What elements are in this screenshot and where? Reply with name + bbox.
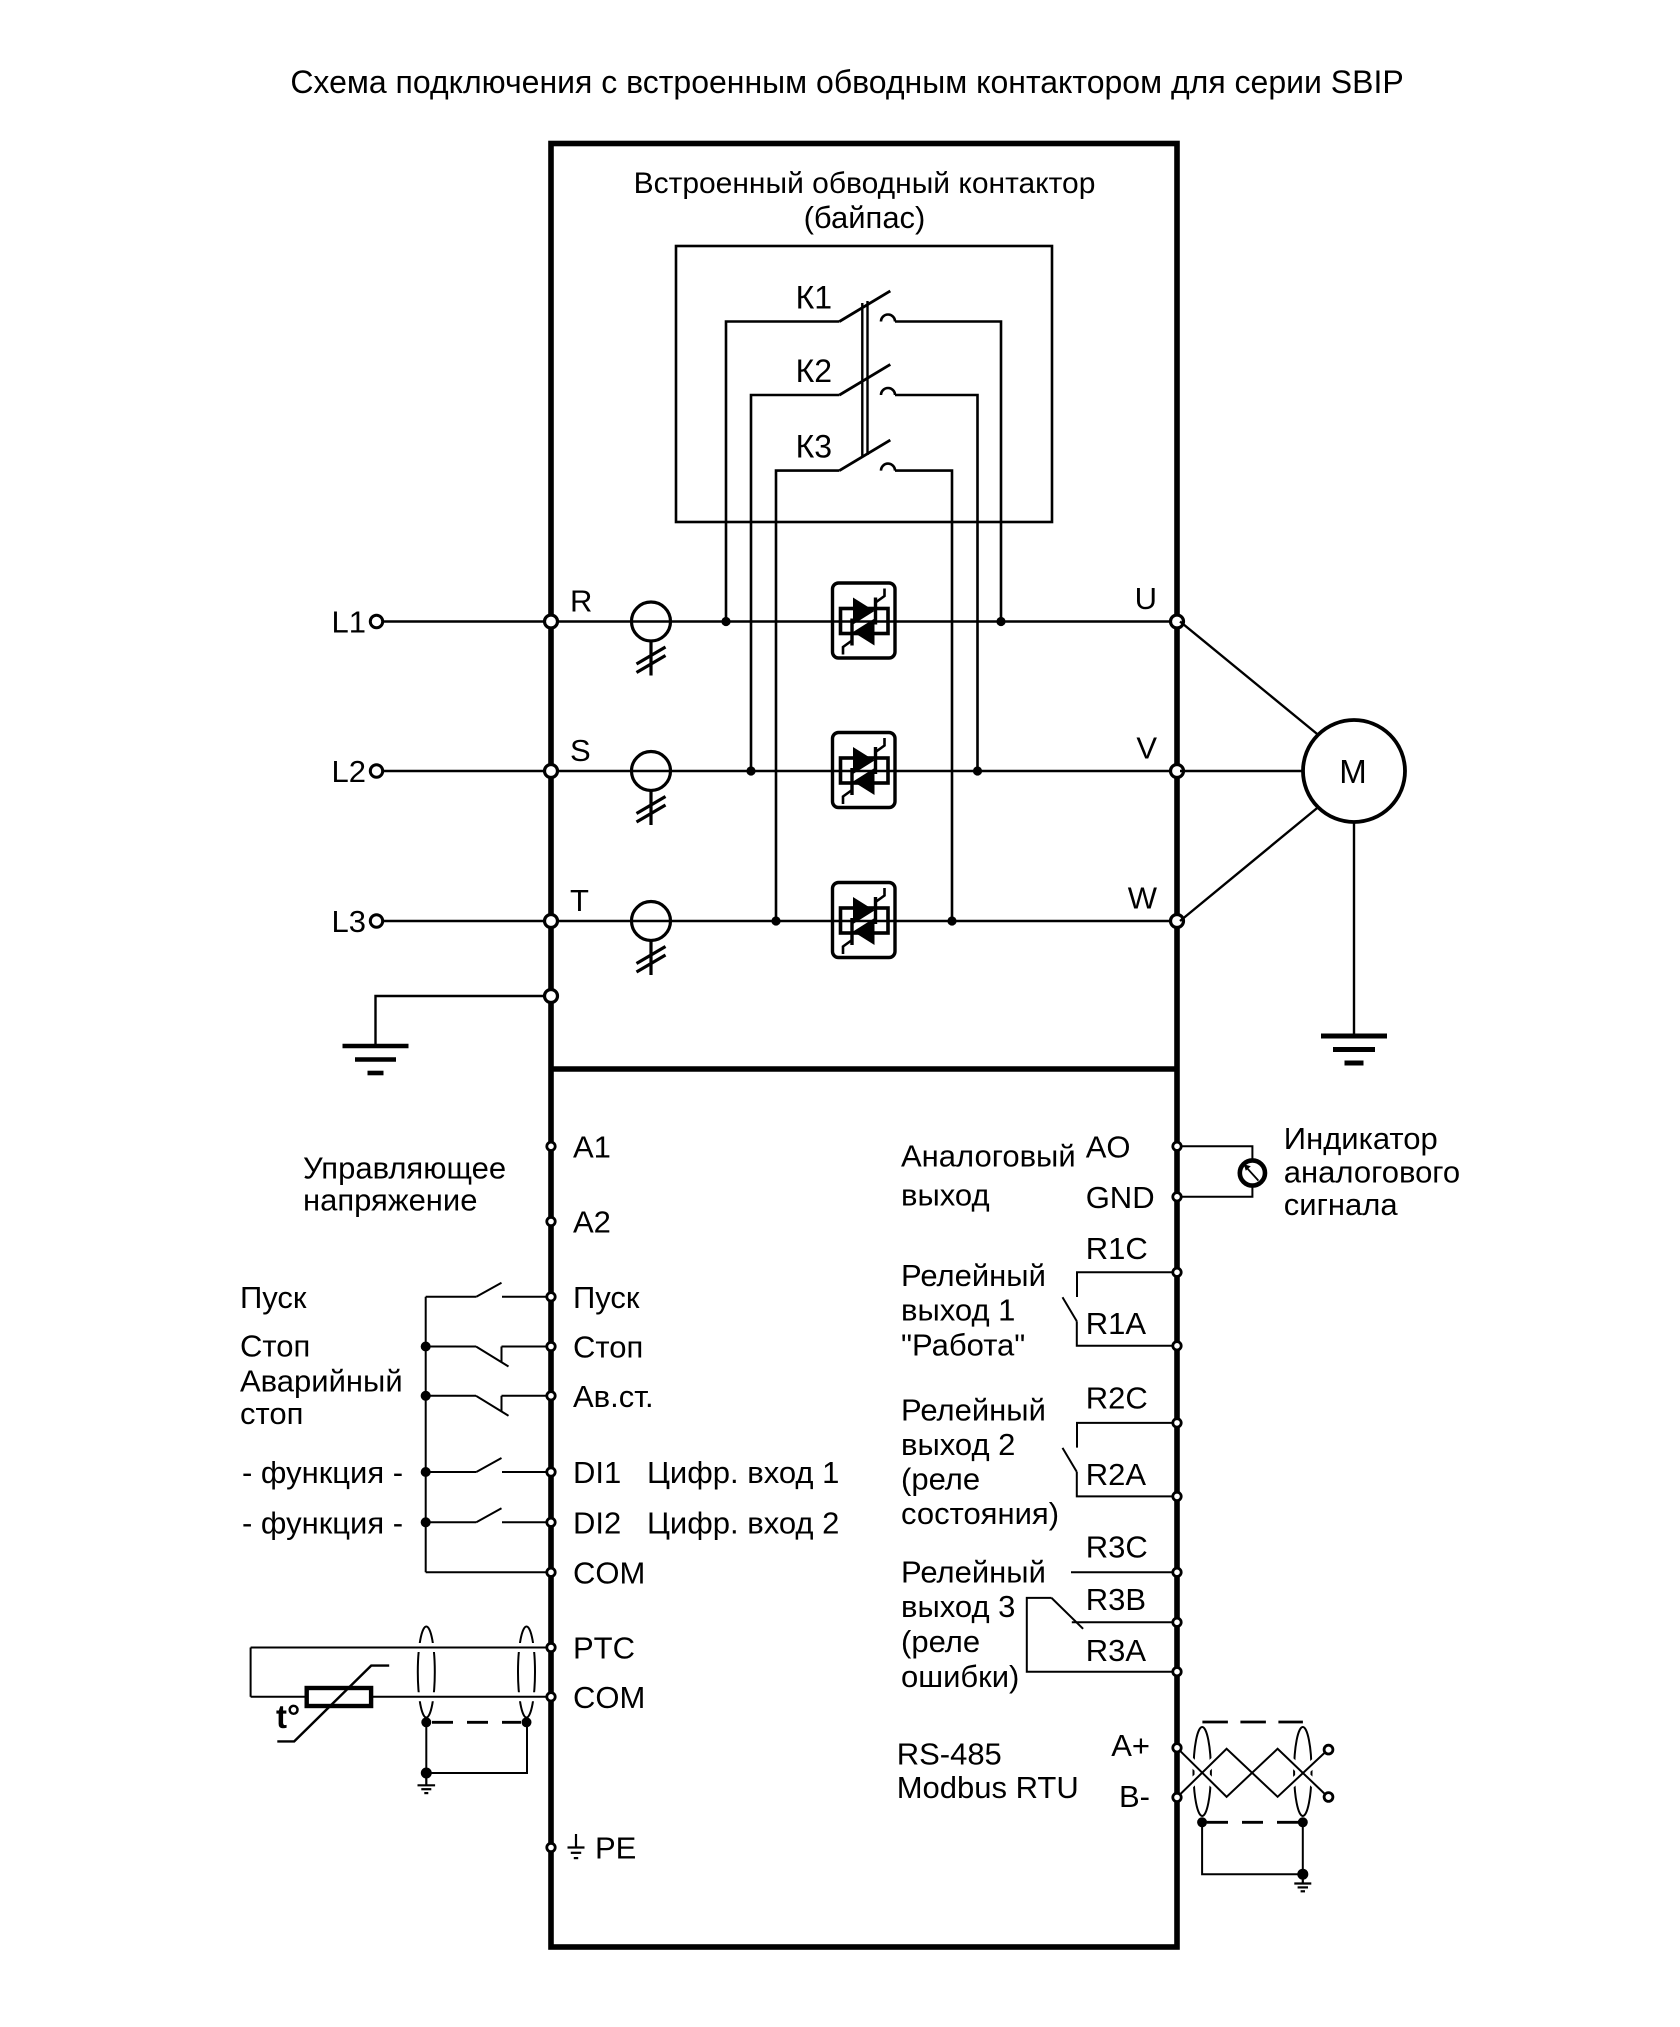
svg-text:S: S (570, 733, 591, 768)
RS shield node left (1197, 1817, 1207, 1827)
junction DI2 (421, 1517, 431, 1527)
PTC wire (251, 1647, 551, 1649)
AO indicator wires (1177, 1146, 1252, 1160)
terminal T (545, 915, 558, 928)
terminal R1A (1173, 1342, 1181, 1350)
svg-text:R1C: R1C (1086, 1231, 1148, 1266)
svg-text:R2A: R2A (1086, 1457, 1147, 1492)
svg-text:R2C: R2C (1086, 1381, 1148, 1416)
shield node left (421, 1717, 431, 1727)
junction K1 left (721, 617, 730, 626)
svg-text:R1A: R1A (1086, 1306, 1147, 1341)
contactor К1 fixed contact (881, 315, 895, 322)
DI1 switch (426, 1458, 551, 1472)
svg-text:выход: выход (901, 1177, 990, 1212)
RS shield dashed top (1202, 1721, 1303, 1724)
RS wire end A (1324, 1745, 1333, 1754)
svg-text:Релейный: Релейный (901, 1554, 1046, 1589)
contactor К3 blade (839, 440, 890, 471)
stop switch (426, 1347, 551, 1367)
shield node right (522, 1717, 532, 1727)
wire L2 to S (384, 770, 552, 773)
junction DI1 (421, 1467, 431, 1477)
wire V to motor (1180, 770, 1303, 772)
svg-text:t°: t° (276, 1698, 300, 1735)
wire phase T (551, 920, 1177, 922)
wire L3 to T (384, 920, 552, 923)
svg-text:Аналоговый: Аналоговый (901, 1139, 1076, 1174)
shield ground (418, 1773, 436, 1793)
svg-text:напряжение: напряжение (303, 1183, 477, 1218)
terminal PTC (547, 1643, 555, 1651)
thyristor module phase S (833, 733, 896, 808)
contactor К1 blade (839, 291, 890, 322)
svg-text:A+: A+ (1111, 1728, 1150, 1763)
svg-text:AO: AO (1086, 1129, 1131, 1164)
svg-text:B-: B- (1119, 1779, 1150, 1814)
contactor К3 left wire (776, 471, 839, 921)
svg-text:Стоп: Стоп (240, 1329, 310, 1364)
svg-text:V: V (1136, 731, 1157, 766)
svg-text:COM: COM (573, 1680, 645, 1715)
svg-text:Ав.ст.: Ав.ст. (573, 1379, 654, 1414)
svg-text:Пуск: Пуск (240, 1280, 307, 1315)
terminal A+ (1173, 1744, 1181, 1752)
svg-text:- функция -: - функция - (242, 1505, 403, 1540)
terminal COM (547, 1568, 555, 1576)
svg-text:аналогового: аналогового (1284, 1154, 1460, 1189)
COM wire (426, 1571, 551, 1573)
motor M (1303, 720, 1405, 822)
contactor К2 blade (839, 365, 890, 396)
thyristor module phase R (833, 583, 896, 658)
svg-text:выход 3: выход 3 (901, 1589, 1015, 1624)
PE ground symbol (568, 1834, 585, 1858)
svg-text:Пуск: Пуск (573, 1280, 640, 1315)
terminal Стоп (547, 1342, 555, 1350)
svg-text:К1: К1 (796, 280, 832, 316)
shield drain wires (426, 1722, 527, 1773)
shield link dashed (432, 1721, 521, 1724)
svg-text:DI1: DI1 (573, 1455, 621, 1490)
svg-text:(реле: (реле (901, 1624, 980, 1659)
terminal R2A (1173, 1492, 1181, 1500)
terminal S (545, 765, 558, 778)
svg-text:DI2: DI2 (573, 1505, 621, 1540)
svg-text:Индикатор: Индикатор (1284, 1121, 1438, 1156)
motor ground wire (1353, 822, 1355, 1035)
svg-text:стоп: стоп (240, 1396, 303, 1431)
terminal Пуск (547, 1293, 555, 1301)
terminal GND (1173, 1193, 1181, 1201)
terminal DI2 (547, 1518, 555, 1526)
thermistor RT (307, 1688, 371, 1706)
svg-text:U: U (1135, 581, 1157, 616)
svg-text:PE: PE (595, 1831, 636, 1866)
svg-text:R3A: R3A (1086, 1633, 1147, 1668)
thermistor left wire (250, 1648, 252, 1697)
PTC COM wire (251, 1696, 551, 1698)
wire U to motor (1180, 622, 1319, 736)
terminal COM2 (547, 1693, 555, 1701)
svg-text:выход 1: выход 1 (901, 1293, 1015, 1328)
svg-text:ошибки): ошибки) (901, 1659, 1019, 1694)
contactor К1 right wire (895, 322, 1001, 622)
DI2 switch (426, 1508, 551, 1522)
svg-text:Цифр. вход 2: Цифр. вход 2 (647, 1505, 839, 1540)
emergency stop switch (426, 1396, 551, 1416)
svg-text:выход 2: выход 2 (901, 1427, 1015, 1462)
cable screen arcs (418, 1627, 435, 1718)
contactor К1 left wire (726, 322, 839, 622)
wire L1 to R (384, 620, 552, 623)
junction K3 right (947, 916, 956, 925)
svg-text:T: T (570, 883, 589, 918)
terminal Ав.ст. (547, 1392, 555, 1400)
relay R3 contact (1027, 1572, 1177, 1671)
wire enclosure to earth (376, 996, 552, 1044)
wire W to motor (1180, 807, 1319, 922)
svg-text:L1: L1 (332, 605, 366, 640)
svg-text:COM: COM (573, 1555, 645, 1590)
thyristor module phase T (833, 883, 896, 958)
relay R2 contact (1063, 1423, 1178, 1497)
contactor К3 right wire (895, 471, 952, 921)
svg-text:Управляющее: Управляющее (303, 1151, 506, 1186)
junction K2 left (746, 766, 755, 775)
RS ground (1294, 1874, 1311, 1891)
terminal W (1171, 915, 1184, 928)
svg-text:(реле: (реле (901, 1462, 980, 1497)
junction K2 right (973, 766, 982, 775)
svg-text:Встроенный обводный контактор: Встроенный обводный контактор (634, 167, 1096, 200)
svg-text:Релейный: Релейный (901, 1393, 1046, 1428)
svg-text:L3: L3 (332, 904, 366, 939)
svg-text:Аварийный: Аварийный (240, 1364, 403, 1399)
junction K1 right (996, 617, 1005, 626)
analog signal indicator (1240, 1160, 1265, 1185)
terminal R3A (1173, 1668, 1181, 1676)
svg-text:Схема подключения с встроенным: Схема подключения с встроенным обводным … (290, 64, 1403, 100)
svg-text:M: M (1339, 753, 1367, 790)
terminal U (1171, 615, 1184, 628)
contactor mechanical linkage (861, 303, 863, 457)
terminal R3C (1173, 1568, 1181, 1576)
svg-text:К2: К2 (796, 353, 832, 389)
RS shield dashed bottom (1207, 1821, 1298, 1824)
svg-text:A2: A2 (573, 1205, 611, 1240)
svg-text:L2: L2 (332, 754, 366, 789)
terminal R2C (1173, 1419, 1181, 1427)
contactor К2 left wire (751, 395, 839, 771)
svg-text:К3: К3 (796, 429, 832, 465)
svg-text:R3B: R3B (1086, 1582, 1146, 1617)
svg-text:"Работа": "Работа" (901, 1327, 1025, 1362)
junction emergency stop (421, 1391, 431, 1401)
svg-text:RS-485: RS-485 (897, 1736, 1002, 1771)
svg-text:Цифр. вход 1: Цифр. вход 1 (647, 1455, 839, 1490)
current sensor on S (632, 752, 671, 826)
RS drain wires (1202, 1822, 1303, 1874)
terminal AO (1173, 1142, 1181, 1150)
svg-text:Стоп: Стоп (573, 1330, 643, 1365)
motor ground (1321, 1036, 1387, 1063)
contactor К2 fixed contact (881, 388, 895, 395)
svg-text:PTC: PTC (573, 1631, 635, 1666)
svg-text:- функция -: - функция - (242, 1455, 403, 1490)
svg-text:Modbus RTU: Modbus RTU (897, 1770, 1079, 1805)
terminal A2 (547, 1217, 555, 1225)
svg-text:сигнала: сигнала (1284, 1187, 1399, 1222)
bypass contactor box (676, 246, 1052, 522)
current sensor on R (632, 602, 671, 676)
wire phase R (551, 620, 1177, 622)
terminal R1C (1173, 1268, 1181, 1276)
svg-text:(байпас): (байпас) (804, 200, 926, 235)
twisted pair wire A (1177, 1748, 1328, 1797)
svg-text:R3C: R3C (1086, 1530, 1148, 1565)
RS shield node right (1298, 1817, 1308, 1827)
wire phase S (551, 770, 1177, 772)
svg-text:состояния): состояния) (901, 1496, 1059, 1531)
junction K3 left (771, 916, 780, 925)
junction stop (421, 1342, 431, 1352)
contactor К3 fixed contact (881, 464, 895, 471)
terminal PE (547, 1843, 555, 1851)
terminal R (545, 615, 558, 628)
terminal V (1171, 765, 1184, 778)
current sensor on T (632, 902, 671, 976)
contactor К2 right wire (895, 395, 978, 771)
terminal R3B (1173, 1618, 1181, 1626)
switch common bus (425, 1297, 427, 1573)
RS wire end B (1324, 1793, 1333, 1802)
RS drain node (1297, 1869, 1308, 1880)
svg-text:A1: A1 (573, 1129, 611, 1164)
svg-text:R: R (570, 584, 592, 619)
section divider wire (549, 1066, 1180, 1072)
terminal DI1 (547, 1468, 555, 1476)
shield drain node (421, 1768, 432, 1779)
terminal B- (1173, 1793, 1181, 1801)
relay R1 contact (1063, 1272, 1178, 1346)
twisted pair wire B (1177, 1749, 1328, 1798)
svg-text:W: W (1128, 881, 1158, 916)
svg-text:GND: GND (1086, 1180, 1155, 1215)
svg-text:Релейный: Релейный (901, 1258, 1046, 1293)
terminal A1 (547, 1142, 555, 1150)
RS cable screen arcs (1194, 1727, 1211, 1816)
ground (343, 1046, 409, 1073)
start switch (426, 1283, 551, 1297)
soft starter enclosure (551, 144, 1177, 1948)
